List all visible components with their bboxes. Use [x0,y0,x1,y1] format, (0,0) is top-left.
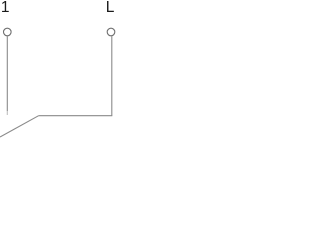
terminal circle L [107,28,115,36]
wire from terminal 1 down [6,36,8,111]
wire from terminal L down [111,36,113,116]
wire faded tip [6,111,8,115]
svg-text:1: 1 [1,0,10,16]
horizontal wire [39,115,113,117]
terminal circle 1 [4,28,12,36]
svg-text:L: L [106,0,115,16]
switch blade (open) [0,116,39,137]
